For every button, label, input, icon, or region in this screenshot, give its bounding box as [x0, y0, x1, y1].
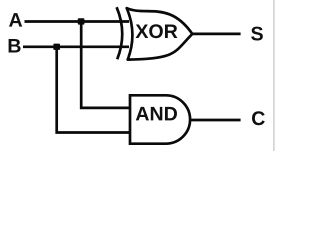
wire A to XOR	[25, 20, 130, 23]
input label B	[9, 39, 21, 53]
wire B to XOR	[23, 45, 129, 48]
wire AND output to C	[190, 119, 241, 122]
wire B tap down to AND lower input	[57, 47, 131, 133]
AND gate U2 body	[130, 95, 190, 143]
XOR gate U1 input arc	[117, 7, 123, 59]
junction dot on B	[53, 44, 60, 50]
output label S	[251, 27, 263, 41]
XOR label	[136, 24, 178, 38]
input label A	[9, 13, 22, 27]
wire XOR output to S	[192, 33, 241, 36]
output label C	[252, 111, 265, 125]
AND label	[136, 107, 177, 121]
junction dot on A	[78, 18, 85, 24]
wire A tap down to AND upper input	[81, 22, 131, 108]
right window edge line	[273, 0, 274, 151]
XOR gate U1 body	[127, 8, 193, 60]
